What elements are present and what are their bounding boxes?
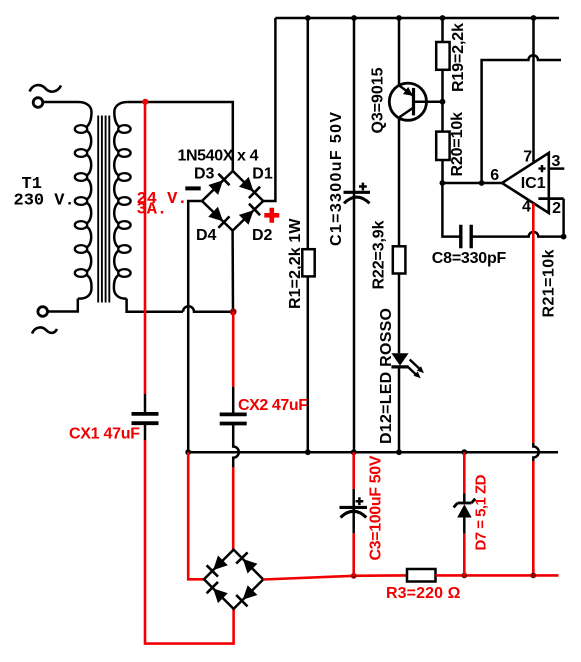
- top bus wire: [275, 17, 559, 20]
- wire Q3 collector down to R22: [398, 118, 401, 247]
- secondary winding entry arc: [114, 102, 128, 128]
- B2 diode bottom-left: [207, 582, 228, 603]
- svg-text:D12=LED ROSSO: D12=LED ROSSO: [378, 308, 395, 444]
- primary loop ellipses: [75, 125, 87, 133]
- wire C8 to pin2 node with hop: [471, 232, 563, 237]
- svg-text:IC1: IC1: [521, 175, 546, 192]
- transformer T1 primary winding entry arc: [78, 102, 92, 128]
- resistor R19 wire: [441, 18, 444, 42]
- wire Q3 base to R19/R20 node: [414, 100, 443, 103]
- capacitor CX2 plates: [220, 414, 247, 423]
- svg-text:C8=330pF: C8=330pF: [432, 250, 507, 267]
- CX1 column red upper: [144, 102, 147, 394]
- D7 column red lower: [463, 534, 466, 576]
- junction dots top bus: [305, 15, 536, 21]
- secondary loop ellipses: [118, 125, 130, 133]
- B2 diode top-right: [236, 552, 257, 573]
- transformer T1 secondary terminal bottom: [38, 307, 48, 317]
- wire pin4 red from op-amp down: [532, 203, 535, 442]
- resistor R20 body: [436, 132, 449, 160]
- capacitor C1 plates: [344, 191, 371, 194]
- svg-text:3A.: 3A.: [137, 201, 168, 220]
- capacitor C3 plates: [340, 506, 368, 509]
- B2 diode bottom-right: [236, 585, 257, 606]
- diode D4: [208, 207, 229, 228]
- svg-text:CX2 47uF: CX2 47uF: [238, 397, 308, 414]
- capacitor C1 column wire: [353, 18, 356, 452]
- resistor R1 body: [302, 249, 314, 276]
- junction dots lower bus: [185, 449, 467, 455]
- capacitor C8 plates: [461, 225, 471, 249]
- svg-text:R22=3,9k: R22=3,9k: [371, 220, 388, 289]
- C3 polarity plus: [356, 497, 364, 505]
- C3 column red upper: [352, 452, 355, 489]
- resistor R3 body: [407, 569, 436, 582]
- op-amp plus marker: [538, 165, 545, 172]
- bridge rectifier B1 diamond: [202, 171, 263, 231]
- primary winding arcs: [87, 131, 92, 152]
- wire LED to lower bus: [398, 367, 401, 452]
- bridge rectifier B2 diamond: [204, 550, 263, 609]
- plus sign red at bridge: [264, 208, 279, 223]
- wire R19 to R20: [441, 70, 444, 132]
- wire bridge bottom vertex down to junction: [231, 231, 234, 312]
- CX1 column black lower: [144, 423, 147, 440]
- CX1 column red lower to bottom bus: [145, 440, 234, 644]
- junction dot base node: [440, 99, 446, 105]
- wire bridge right vertex up to top bus: [263, 18, 275, 201]
- svg-text:R19=2,2k: R19=2,2k: [450, 23, 467, 92]
- D7 column red upper: [463, 452, 466, 493]
- junction dot pin2 node: [561, 234, 567, 240]
- junction dot pin6 node: [440, 180, 446, 186]
- svg-text:D1: D1: [252, 166, 273, 183]
- secondary winding exit arc: [114, 275, 127, 299]
- svg-text:1N540X x 4: 1N540X x 4: [178, 148, 259, 165]
- zener D7: [454, 499, 476, 518]
- red junction dot transformer top: [142, 99, 148, 105]
- op-amp IC1 triangle: [502, 153, 549, 213]
- resistor R1 column wire: [307, 18, 310, 452]
- ac tilde top: [30, 85, 62, 92]
- transformer core: [98, 116, 109, 303]
- CX2 column black lower with hop over bus: [233, 424, 239, 468]
- wire primary bottom to terminal: [48, 299, 78, 312]
- wire terminal to primary: [43, 101, 78, 104]
- C1 polarity plus: [359, 183, 367, 191]
- D7 column black lower stub: [463, 518, 466, 534]
- CX2 column red to bridge2: [232, 467, 235, 549]
- svg-text:6: 6: [490, 167, 499, 184]
- capacitor CX1 plates: [132, 414, 159, 423]
- junction dot bridge bottom node: [230, 308, 237, 315]
- wire R22 to LED: [398, 274, 401, 354]
- svg-text:C3=100uF 50V: C3=100uF 50V: [368, 455, 385, 560]
- B2 diode top-left: [207, 556, 228, 577]
- wire pin6 to op-amp: [442, 182, 502, 185]
- C3 column red lower: [352, 533, 355, 576]
- LED D12: [391, 353, 424, 378]
- resistor R19 body: [436, 42, 449, 70]
- wire pin3 stub: [549, 167, 565, 170]
- C3 column black segment: [352, 489, 355, 533]
- red wire R3 to right: [436, 574, 559, 577]
- secondary winding arcs: [114, 131, 119, 152]
- red wire lower bus to bridge2 left: [188, 452, 204, 579]
- wire secondary bottom: [127, 299, 183, 312]
- wire pin6 node down to C8: [442, 183, 460, 237]
- wire R20 to pin6 node: [441, 160, 444, 183]
- transistor Q3: [389, 83, 426, 120]
- transistor Q3 column wire upper: [398, 18, 401, 85]
- wire pin2 stub down: [562, 199, 565, 237]
- svg-text:D7 = 5,1 ZD: D7 = 5,1 ZD: [473, 474, 490, 550]
- diode D1: [239, 177, 260, 198]
- wire bridge left vertex to lower bus: [188, 201, 202, 452]
- junction dot feedback node: [479, 180, 485, 186]
- svg-text:R3=220 Ω: R3=220 Ω: [386, 585, 461, 602]
- red wire bridge2 right to R3: [263, 575, 407, 579]
- pin4 wire hop over lower bus (black): [533, 443, 539, 461]
- svg-text:D4: D4: [196, 227, 217, 244]
- diode D3: [208, 174, 229, 195]
- op-amp minus marker / pin2 stub: [538, 197, 563, 200]
- svg-text:D3: D3: [194, 166, 215, 183]
- svg-text:2: 2: [552, 200, 561, 217]
- CX2 column black segment: [232, 387, 235, 415]
- wire hop over node at x=188: [183, 306, 233, 311]
- svg-text:R21=10k: R21=10k: [541, 249, 558, 317]
- pin4 wire red continues to bottom bus: [532, 461, 535, 575]
- svg-text:4: 4: [522, 199, 531, 216]
- svg-text:Q3=9015: Q3=9015: [370, 67, 387, 133]
- svg-text:CX1 47uF: CX1 47uF: [69, 426, 140, 443]
- CX2 column red upper: [232, 312, 235, 387]
- wire pin7 from top bus: [532, 18, 535, 162]
- CX1 column black segment: [144, 394, 147, 414]
- svg-text:3: 3: [552, 153, 561, 170]
- junction dots bottom red bus: [351, 573, 536, 579]
- primary winding exit arc: [78, 275, 92, 299]
- svg-text:C1=3300uF 50V: C1=3300uF 50V: [328, 112, 345, 246]
- svg-text:230 V.: 230 V.: [14, 192, 75, 211]
- svg-text:R1=2,2k 1W: R1=2,2k 1W: [287, 218, 304, 309]
- diode D2: [239, 204, 260, 225]
- transformer T1 primary terminal top: [33, 98, 43, 108]
- D7 column black upper stub: [463, 494, 466, 503]
- lower bus wire: [188, 451, 558, 454]
- svg-text:7: 7: [523, 149, 532, 166]
- feedback wire up and right with hop: [482, 55, 561, 183]
- ac tilde bottom: [32, 327, 57, 333]
- resistor R22 body: [393, 246, 406, 273]
- minus sign at bridge: [185, 186, 200, 190]
- svg-text:D2: D2: [252, 227, 273, 244]
- svg-text:R20=10k: R20=10k: [449, 112, 466, 177]
- wire secondary top to bridge: [128, 102, 233, 171]
